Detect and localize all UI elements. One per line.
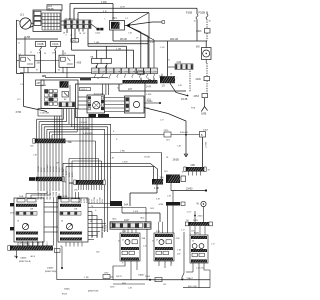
wire [171,190,206,192]
svg-text:2474: 2474 [164,130,170,132]
wire [78,12,149,14]
wire [105,97,125,99]
wire [113,40,207,42]
pod1 side terminal a [10,203,14,206]
hazard switch unit switch symbol [125,240,130,245]
svg-text:5/1B: 5/1B [194,233,199,235]
wire [54,116,56,139]
svg-text:0.75T: 0.75T [66,171,68,175]
svg-text:1.25G: 1.25G [50,192,52,197]
fuse C9 [92,59,102,69]
wire [158,261,160,266]
light switch pod rheostat arrow [23,224,28,228]
wire [202,137,204,167]
wire [90,185,92,190]
wire [56,249,58,280]
svg-text:53: 53 [192,241,194,243]
wire [96,185,98,190]
svg-text:0.75GN: 0.75GN [106,224,108,231]
wire [88,207,146,209]
wire [78,192,80,199]
wire [206,12,208,15]
wire [43,143,45,177]
wire [42,241,44,245]
wire [159,213,161,222]
control unit 4/16 [41,80,78,109]
light switch pod housing [14,198,44,242]
wire [69,4,71,21]
wire [130,261,132,280]
light switch pod contact row [16,212,37,216]
light switch pod connector row 2 [16,232,39,235]
svg-text:C17B: C17B [144,71,150,73]
wire [62,50,64,55]
wire [162,222,164,233]
wire [140,78,142,80]
wire [77,185,79,190]
module 7/8 [160,76,178,83]
wire [119,90,186,92]
connector strip row 1 [64,20,91,24]
wire [74,29,76,39]
svg-text:29/3B: 29/3B [173,159,180,162]
wire [58,181,60,191]
wire [49,143,51,177]
wire [83,185,85,190]
wire [88,211,92,213]
turn signal unit cell c [166,240,171,244]
wire [183,287,210,289]
connector plate 5A [138,71,144,74]
ignition switch 2/1 [20,18,31,29]
svg-text:S/9B: S/9B [201,113,207,116]
label plate 14RD4 [80,88,91,91]
light switch pod rheostat [22,223,28,229]
wire [66,67,68,77]
row 29A end L [74,180,76,185]
wire [156,185,158,194]
wire [122,212,160,214]
svg-text:C202: C202 [95,33,101,35]
ground arrow 29/3B [184,154,188,157]
wire [98,185,100,190]
wire [170,261,172,266]
wire [113,279,210,281]
terminal block 34B [89,114,97,117]
wire [55,143,57,177]
wire [91,118,93,181]
relay 3/8 coil [21,57,26,61]
wire [206,63,208,76]
wire [37,198,39,200]
wire [35,60,59,62]
wire [78,96,87,98]
wire [200,172,202,176]
wire [61,20,64,22]
central unit relay cell a [34,11,41,15]
wire [123,229,125,233]
svg-text:23A06: 23A06 [20,257,27,260]
ground splice 23A05 [61,267,63,269]
wire [167,41,169,76]
wire [73,8,75,20]
connector row 34E [35,139,66,144]
wire [61,247,63,269]
warning lamp [201,201,206,206]
wire [101,220,103,239]
wire [172,191,174,234]
row 29A end R [103,180,105,185]
fan control pin column [126,98,130,112]
wire [96,50,98,58]
fuse F105 [196,14,198,19]
unit 4/16 pin row [59,102,75,107]
connector plate 14/2 [71,39,79,42]
svg-text:3403: 3403 [196,30,202,33]
central unit relay cell b [34,16,41,20]
wire [113,261,125,280]
row 24B end L [184,167,186,172]
terminal 29/5 [110,201,122,206]
svg-text:F105: F105 [186,10,193,14]
inline connector pair b [100,28,103,31]
connector 3403 b [155,278,162,282]
svg-text:4 RD: 4 RD [101,1,107,4]
svg-text:58: 58 [61,221,63,223]
connector bar 4/1B [166,202,180,206]
svg-text:30: 30 [117,88,119,90]
svg-text:C17B: C17B [130,71,136,73]
wire [74,7,197,9]
connector 2/32 [175,64,193,70]
relay 4/55 [59,55,75,67]
row 34D end R [62,177,64,181]
wire [46,242,48,246]
wire [78,100,87,102]
svg-text:2453: 2453 [203,129,209,131]
ground arrow 23A06 [15,256,18,259]
light switch pod plate b [27,199,36,202]
wire [126,46,128,68]
connector LHD [103,275,110,279]
wire [37,242,39,246]
svg-text:0.75R: 0.75R [72,172,74,177]
junction block 11/B [38,109,62,117]
svg-text:49: 49 [122,240,124,242]
wire [39,121,66,123]
wire [66,29,68,33]
svg-text:2B GB: 2B GB [120,39,127,41]
wire [105,104,125,106]
svg-text:2453: 2453 [194,95,200,98]
svg-text:1.4 T: 1.4 T [187,212,193,214]
wire [95,141,97,180]
wire [81,242,83,247]
svg-text:1.4 B-GN: 1.4 B-GN [196,268,205,270]
wire [57,279,113,281]
svg-text:16 R: 16 R [120,6,125,8]
fuse C10 [101,59,111,69]
wire [79,118,81,181]
wiper switch unit connector row top [191,236,207,239]
terminal block 24B [98,114,109,117]
wire [37,242,39,246]
svg-text:B5: B5 [14,256,16,258]
wire [88,219,102,221]
wire [135,229,137,233]
svg-text:14 R: 14 R [146,86,151,88]
wire [66,165,154,167]
wire [88,118,90,181]
wire [196,19,198,41]
wire [31,191,50,198]
svg-text:87: 87 [36,70,38,72]
wire [77,13,79,20]
wire [153,40,155,68]
wire [74,109,76,130]
svg-text:C17B: C17B [122,71,128,73]
hazard switch unit outline [120,233,140,261]
wire [46,143,48,177]
splice 29-4B [187,95,189,97]
svg-text:30: 30 [64,53,66,55]
wire [72,49,134,51]
wire [88,45,127,47]
svg-text:14 R 4: 14 R 4 [80,89,87,91]
module 34A [166,175,182,184]
wire [27,67,29,73]
ignition switch contact arrow [30,26,34,28]
wire [88,215,97,217]
wire [105,65,107,68]
row 24B end R [204,167,206,172]
wire [73,242,75,247]
ground lead S/9B [201,107,204,112]
relay 3/8 contact [27,58,33,65]
wiper switch unit cell a [192,253,197,256]
wire [49,131,77,133]
wire [17,73,24,75]
svg-text:49: 49 [128,241,130,243]
wire [85,185,87,190]
wire [42,123,111,125]
wire [131,229,133,233]
wire [62,67,64,73]
wiper-washer pod connector row 1 [60,204,81,207]
svg-text:1A05: 1A05 [140,217,144,220]
svg-text:29-4B: 29-4B [181,98,188,101]
wiper-washer pod connector row 3 [60,238,83,241]
wire [192,172,194,176]
connector row 24/5 [189,222,210,226]
connector 2453 [202,94,208,98]
wire [19,242,21,246]
wire [96,65,98,68]
wiper-washer pod plate a [61,199,69,202]
blower motor [93,102,100,109]
turn signal unit connector row bottom [155,257,173,260]
svg-text:4/50-RD: 4/50-RD [180,132,189,134]
svg-text:3/7M: 3/7M [16,111,21,114]
wire [130,192,157,194]
wire [189,71,191,92]
wire [37,143,39,177]
wire [70,3,113,5]
wire [127,229,129,233]
wire [127,13,150,26]
wire [45,77,108,79]
svg-text:1 1/B 34B: 1 1/B 34B [40,113,50,115]
wire [58,143,60,177]
wire [102,84,104,95]
svg-text:30: 30 [152,241,154,243]
svg-text:1 5B: 1 5B [84,277,89,279]
row 24/5 end R [209,222,212,226]
svg-text:31: 31 [18,43,20,45]
wire [28,242,30,246]
svg-text:1.4R: 1.4R [33,155,38,157]
svg-text:24/3: 24/3 [166,140,170,142]
ignition switch key lever [22,19,31,27]
wire [44,126,107,128]
svg-text:2340B: 2340B [144,157,150,159]
wire [61,116,63,139]
wire [61,24,64,26]
svg-text:1 GN: 1 GN [116,48,122,50]
wire [129,193,131,206]
ground lead S/9B b [205,107,208,111]
svg-text:6/8: 6/8 [196,46,200,49]
connector 24T [36,80,45,86]
wire [127,26,141,33]
wire [56,116,58,139]
wire [56,198,58,249]
wire [43,198,45,200]
svg-text:6.4R: 6.4R [178,85,183,87]
wire [65,109,67,122]
label 34D plate [29,177,36,181]
clock 6/8 housing [202,48,212,60]
wire [49,198,51,200]
light switch pod connector row 3 [16,238,39,241]
svg-text:1 GB: 1 GB [94,42,100,44]
bulkhead connector 29A [76,180,104,185]
relay 4/55 contact [67,58,73,65]
wire [69,242,71,247]
wire [161,74,163,77]
wire [105,107,125,109]
svg-text:1.4GN: 1.4GN [122,162,128,164]
wire [140,32,142,68]
terminal 4/58 [58,196,62,199]
svg-text:2/1: 2/1 [20,13,24,17]
floor row end [8,246,10,251]
connector row end L [110,223,112,228]
wire [104,129,106,232]
wire [170,83,187,95]
wire [88,43,148,45]
wire [82,29,84,32]
svg-text:5A4: 5A4 [124,204,129,207]
svg-text:C147: C147 [100,71,106,73]
connector 2400 [204,77,210,81]
hazard switch unit cell c [132,240,137,244]
unit 4/16 contacts [64,85,70,101]
wire [52,134,200,136]
svg-text:58: 58 [20,243,22,245]
wire [62,163,64,199]
heater unit 17/8 [87,95,105,113]
in-line connector row C110-C178 [92,68,158,78]
svg-text:C170: C170 [107,71,113,73]
wiper switch unit outline [190,235,208,263]
wire [203,207,205,222]
wire [88,185,90,190]
wire [161,153,163,180]
svg-text:F10B: F10B [38,43,44,46]
wire [168,66,175,68]
connector bar 4/1B aux [181,202,185,206]
svg-text:1A05: 1A05 [112,218,116,221]
wire [87,29,89,47]
wire [22,241,24,245]
svg-text:24F17: 24F17 [116,276,123,278]
floor row side connector [55,249,61,253]
svg-text:6A 8A: 6A 8A [48,8,54,11]
splice 2400b [194,215,196,217]
svg-text:1.25GN: 1.25GN [38,165,40,172]
svg-text:15: 15 [108,78,110,80]
splice [185,134,187,136]
fan control unit 3/31 [125,96,145,113]
svg-text:1.4BN: 1.4BN [146,94,152,96]
inline connector pair [97,28,100,31]
wire [46,181,48,191]
svg-text:1.25R: 1.25R [59,167,61,172]
svg-text:F10B: F10B [199,10,206,14]
wire [204,263,210,280]
svg-text:W5: W5 [186,220,189,222]
wire [88,235,97,237]
svg-text:15: 15 [168,60,170,62]
wire [170,183,172,191]
wire [20,72,95,74]
turn signal unit cell b [163,251,168,254]
wire [93,185,95,190]
wire [46,198,48,200]
connector strip row 2 [64,24,91,28]
fuse F106 [206,14,208,19]
wire [32,242,34,246]
wire [147,36,149,68]
wire [47,128,105,130]
wire [37,118,64,120]
wire [125,25,127,27]
wire [59,116,61,139]
floor connector row JA5 [10,246,55,251]
wire [91,24,97,29]
ignition switch terminal [31,23,33,25]
wire [88,227,103,229]
fuse F10A [50,42,60,52]
svg-text:14: 14 [97,78,99,80]
wire [55,51,57,73]
svg-text:B/1-B: B/1-B [62,294,68,296]
svg-text:0.75R: 0.75R [41,167,43,172]
svg-text:C110: C110 [92,71,98,73]
turn signal unit connector row mid [155,247,173,250]
wire [121,206,123,213]
